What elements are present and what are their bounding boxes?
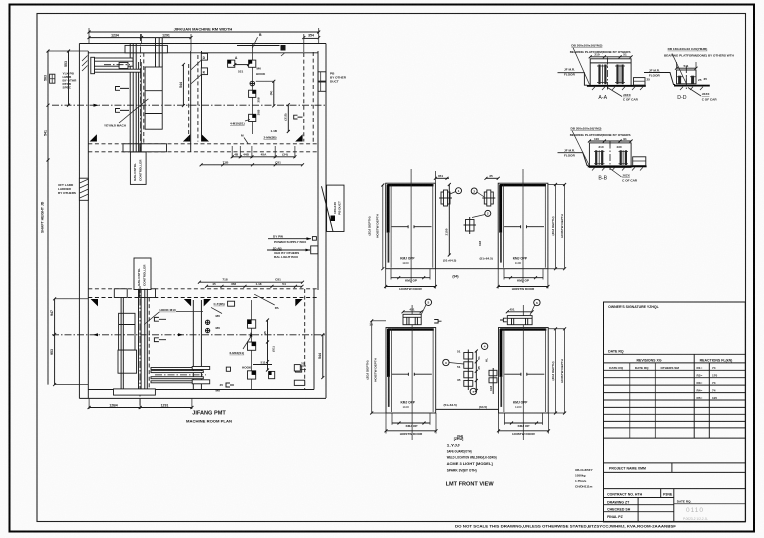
left dim column B upper xyxy=(64,50,70,107)
left dim column A upper xyxy=(44,50,89,385)
rail centerline upper xyxy=(140,34,142,160)
divider wall lower xyxy=(193,300,201,390)
hoistway plan S4 bottom-right xyxy=(497,299,566,440)
title block frame xyxy=(604,302,746,522)
rope bracket detail right of S1 xyxy=(439,188,462,206)
project name row xyxy=(604,462,746,464)
bottom slab block lower xyxy=(114,389,156,395)
anchor bolt flags lower machine xyxy=(154,317,166,341)
wire top dimension row2 subdivisions xyxy=(88,33,321,52)
upper slab dashed edge xyxy=(88,144,318,152)
section B-B xyxy=(558,127,647,183)
car centerline upper room xyxy=(252,44,254,134)
wall bottom xyxy=(79,390,326,399)
controller cabinet 1 xyxy=(130,152,146,184)
wall top xyxy=(79,44,326,53)
guide rails lower xyxy=(121,289,149,391)
overhead hoist beam on top wall xyxy=(125,45,167,52)
vertical dim G upper room xyxy=(256,80,275,116)
lower slab dashed edge xyxy=(88,289,318,298)
bottom dim row upper room xyxy=(200,146,304,166)
table row lines xyxy=(604,369,746,371)
anchor bolt flags upper machine xyxy=(116,87,130,113)
wall right xyxy=(314,44,326,399)
vertical dims lower room xyxy=(263,319,276,372)
hoistway plan S3 bottom-left xyxy=(365,299,441,440)
small detail boxes lower right corner xyxy=(294,362,306,386)
power supply leader labels inside plan xyxy=(267,235,318,260)
extra hook square lower room xyxy=(269,371,275,378)
hook leader lower machine xyxy=(144,308,203,325)
trap dashed lower xyxy=(304,289,306,390)
span labels below bottom shafts xyxy=(436,403,499,439)
corner hatch marks upper room xyxy=(90,134,303,141)
bottom dim row lower plan xyxy=(88,398,194,409)
vertical dim 544 lower right xyxy=(318,333,324,379)
hook squares lower room xyxy=(226,320,301,379)
section mark D box xyxy=(191,53,208,70)
rope bracket detail left of S2 xyxy=(477,190,496,216)
center crosshair upper plan xyxy=(52,104,326,107)
machine label leader xyxy=(104,99,148,128)
table verticals xyxy=(693,354,695,438)
section D-D xyxy=(644,47,735,102)
hoistway plan S2 top-right xyxy=(485,169,567,291)
center crosshair lower plan xyxy=(52,333,326,336)
hoistway plan S1 top-left xyxy=(367,169,449,291)
vertical dim 544 upper xyxy=(179,63,189,142)
ladder hatch on left wall xyxy=(58,178,89,200)
rail bracket stack between S3 S4 xyxy=(443,350,481,395)
divider wall upper xyxy=(191,51,202,152)
B section flag top xyxy=(252,33,285,56)
car centerline lower room xyxy=(251,300,253,390)
wall left xyxy=(79,44,88,399)
hook squares upper room xyxy=(228,60,256,121)
left margin note block xyxy=(50,72,78,90)
labels lower room xyxy=(205,294,279,392)
spec text right side xyxy=(575,468,594,489)
span labels below top shafts xyxy=(435,257,498,279)
traction machine lower xyxy=(118,313,137,373)
sling beams lower xyxy=(151,367,210,384)
plan title xyxy=(186,411,232,424)
controller cabinet 2 xyxy=(134,258,151,290)
corner hatch marks lower room xyxy=(91,299,303,306)
traction machine upper xyxy=(145,67,162,129)
middle rope bracket between S1 S2 xyxy=(445,183,485,257)
vertical dim 315 upper room xyxy=(284,103,303,133)
notes block xyxy=(447,437,497,472)
guide rails upper xyxy=(130,38,162,152)
bracket left of S4 xyxy=(481,343,497,394)
machine bed beams upper-left xyxy=(82,56,141,74)
labels upper room xyxy=(230,46,280,144)
top dim row lower room xyxy=(198,277,304,288)
PB duct box outside right wall xyxy=(322,185,345,231)
section mark K box xyxy=(191,68,208,84)
left dim column lower xyxy=(50,297,88,386)
rail centerline lower xyxy=(139,286,141,407)
trap opening dashed upper xyxy=(198,52,313,144)
wire top dimension row1 overall xyxy=(88,27,321,44)
contract row xyxy=(604,488,746,490)
PB conduit boxes top right wall xyxy=(318,72,347,92)
section A-A xyxy=(558,44,651,102)
